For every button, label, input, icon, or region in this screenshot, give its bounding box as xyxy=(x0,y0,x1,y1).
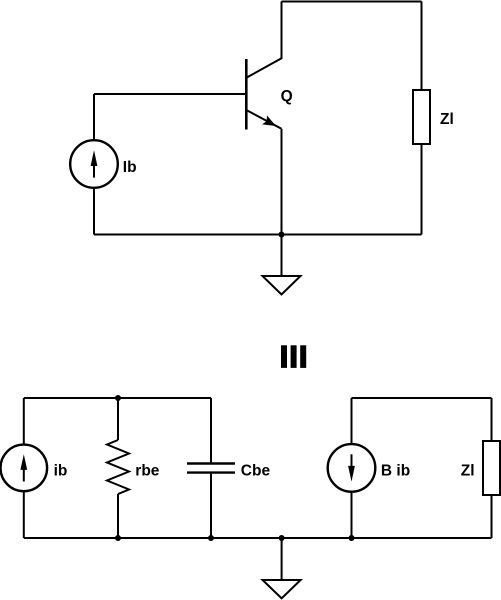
svg-text:Zl: Zl xyxy=(440,111,454,128)
wire ground stub (top circuit) xyxy=(281,235,283,277)
wire right branch lower (Zl to bottom) xyxy=(421,144,423,235)
wire bottom (top circuit) xyxy=(94,234,422,236)
svg-text:Ib: Ib xyxy=(123,159,137,176)
transistor Q xyxy=(246,2,281,130)
impedance Zl (top circuit) xyxy=(413,90,430,144)
svg-text:Cbe: Cbe xyxy=(241,463,271,480)
label Ib xyxy=(123,159,137,176)
svg-text:B ib: B ib xyxy=(381,463,410,480)
capacitor Cbe xyxy=(187,464,235,473)
wire right branch upper (top to Zl) xyxy=(421,2,423,91)
label Zl (top circuit) xyxy=(440,111,454,128)
node capacitor bottom junction xyxy=(208,535,214,541)
wire bottom (bottom circuits common) xyxy=(24,537,492,539)
node ground junction (bottom circuit) xyxy=(279,535,285,541)
svg-text:rbe: rbe xyxy=(135,463,160,480)
wire Zl branch lower (bottom-right loop) xyxy=(491,495,493,538)
current source B ib xyxy=(328,444,376,492)
wire left branch upper (base wire to Ib source) xyxy=(93,94,95,141)
current source Ib xyxy=(70,140,118,188)
label Q xyxy=(281,88,293,105)
wire left branch lower (Ib source to bottom wire) xyxy=(93,188,95,235)
resistor rbe xyxy=(107,440,129,494)
wire top (bottom-left loop) xyxy=(24,397,211,399)
svg-text:Q: Q xyxy=(281,88,293,105)
svg-text:ib: ib xyxy=(54,463,68,480)
wire Zl branch upper (bottom-right loop) xyxy=(491,398,493,441)
label ib xyxy=(54,463,68,480)
wire capacitor bottom stub xyxy=(210,474,212,538)
ground (top circuit) xyxy=(263,276,301,295)
wire ground stub (bottom circuit) xyxy=(281,538,283,580)
current source ib xyxy=(1,445,48,492)
node B ib bottom junction xyxy=(349,535,355,541)
svg-text:Zl: Zl xyxy=(461,463,475,480)
label Zl (bottom circuit) xyxy=(461,463,475,480)
wire capacitor top stub xyxy=(210,398,212,462)
label rbe xyxy=(135,463,160,480)
equivalence symbol III xyxy=(281,345,306,368)
wire base (Ib to transistor base) xyxy=(94,93,245,95)
wire left branch upper (bottom-left loop) xyxy=(23,398,25,445)
wire rbe bottom stub xyxy=(117,494,119,538)
wire B ib bottom stub xyxy=(351,492,353,538)
node emitter-bottom junction xyxy=(279,232,285,238)
wire top (bottom-right loop) xyxy=(352,397,492,399)
wire emitter to bottom xyxy=(281,129,283,235)
wire B ib top stub xyxy=(351,398,353,444)
label Cbe xyxy=(241,463,271,480)
node rbe bottom junction xyxy=(115,535,121,541)
wire left branch lower (ib to bottom wire) xyxy=(23,491,25,538)
wire top (collector to Zl top) xyxy=(282,1,422,3)
label B ib xyxy=(381,463,410,480)
ground (bottom circuit) xyxy=(263,580,301,598)
impedance Zl (bottom circuit) xyxy=(483,441,500,495)
node rbe top junction xyxy=(115,395,121,401)
wire rbe top stub xyxy=(117,398,119,440)
